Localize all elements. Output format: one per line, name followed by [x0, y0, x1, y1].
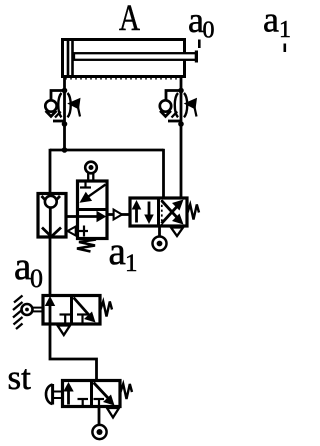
label a0 (top): [188, 0, 215, 44]
wire cylinder left port to bus: [63, 76, 66, 150]
pilot line a1 valve to valve V1: [107, 213, 114, 216]
svg-text:0: 0: [30, 264, 43, 293]
spring right: [121, 384, 133, 399]
wire cylinder right port down to valve V1: [180, 76, 183, 198]
left box T: [78, 398, 89, 400]
cylinder A body: [63, 40, 185, 77]
4/2 impulse valve V1: [130, 198, 199, 251]
exhaust triangle below right box: [107, 408, 119, 418]
junction dot at bus: [62, 147, 68, 153]
top box: diagonal arrow: [88, 185, 106, 197]
right box T: [94, 398, 105, 400]
flow control valve FCV1 (left): [45, 88, 80, 127]
top box: T port: [84, 181, 86, 188]
push button: [46, 385, 53, 405]
spring below: [77, 240, 96, 252]
exhaust triangle below right box: [171, 228, 183, 237]
svg-text:0: 0: [203, 18, 215, 44]
left box up arrow: [67, 389, 70, 405]
3/2 roller valve a0: [13, 296, 112, 336]
svg-text:a: a: [109, 230, 126, 273]
spring right: [188, 205, 200, 220]
node a0 tick: [198, 40, 201, 49]
spring right: [101, 302, 113, 317]
bottom box: exhaust arrow left with seat: [75, 230, 88, 232]
body: [78, 181, 108, 239]
svg-text:a: a: [14, 245, 31, 288]
right box T: [77, 313, 88, 315]
svg-text:A: A: [119, 0, 140, 39]
svg-text:st: st: [8, 358, 32, 397]
svg-text:1: 1: [279, 17, 291, 43]
left box T: [60, 313, 72, 315]
body: [63, 381, 121, 407]
label a1 (middle): [109, 230, 138, 277]
right box crossed arrows: [162, 207, 178, 224]
body: [43, 296, 100, 325]
flow control valve FCV2 (right): [160, 88, 197, 127]
node a1 tick: [284, 44, 287, 53]
svg-text:a: a: [263, 0, 279, 40]
3/2 roller valve a1 (vertical): [68, 162, 108, 252]
left box up arrow: [49, 305, 52, 323]
cylinder piston: [67, 41, 70, 76]
body: [130, 198, 187, 226]
wire a0 valve down and to st valve: [50, 324, 97, 381]
check valve CV1 (box with ball): [38, 194, 66, 238]
wire check valve to a1 valve: [66, 215, 78, 218]
wire check valve down to a0 valve: [49, 237, 52, 295]
roller: [85, 162, 97, 174]
label a1 (top right): [263, 0, 291, 43]
left box arrows: [135, 207, 138, 223]
svg-text:1: 1: [125, 250, 138, 277]
bottom box: through arrow: [78, 215, 98, 218]
supply stub and source circle: [98, 407, 101, 426]
wire bus horizontal: [50, 149, 164, 152]
3/2 push button valve st: [46, 381, 132, 440]
roller with cam wall hatching: [13, 296, 23, 330]
label a0 (left): [14, 245, 43, 293]
wire bus right drop to valve V1: [162, 149, 165, 198]
supply stub and source circle: [158, 226, 161, 237]
wire bus left drop: [49, 149, 52, 192]
cylinder bottom teeth: [66, 77, 181, 80]
right box diagonal arrow: [94, 383, 109, 399]
right box diagonal arrow: [74, 298, 90, 316]
exhaust triangle below left box: [58, 326, 71, 336]
cylinder piston rod: [74, 53, 196, 60]
